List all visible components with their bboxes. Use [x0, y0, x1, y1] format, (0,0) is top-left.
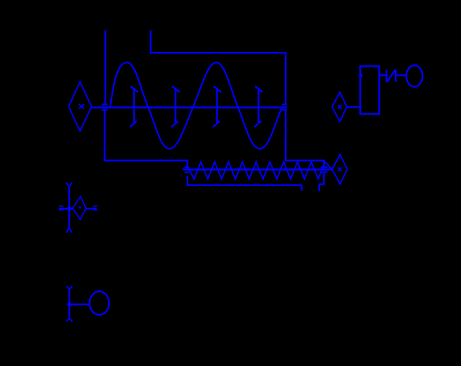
screw conveyor SC1 shaft: [92, 106, 287, 108]
screw SC1 flight paddle at x=175.5: [171, 86, 179, 127]
V1 bottom fork: [66, 228, 72, 233]
stream connector S2 diamond (gearbox input): [332, 92, 347, 121]
blower P1 stem vertical: [68, 289, 70, 319]
gearbox G1 body: [360, 66, 379, 114]
S2 cross mark: [338, 105, 342, 109]
wire: P1 stem to impeller circle: [69, 303, 89, 305]
V1 top fork: [66, 182, 72, 187]
P1 top fork: [66, 286, 72, 289]
screw SC1 flight paddle at x=217.0: [213, 86, 221, 127]
P1 circle top notch: [99, 290, 102, 292]
wire: gearbox output shaft: [379, 74, 386, 76]
wire: coupling to motor M1: [396, 74, 407, 76]
SC1 right end plate bars: [282, 104, 287, 109]
SC1 left end plate bars: [102, 104, 108, 109]
wire: feed stream 1 vertical into SC1 left end: [104, 30, 106, 104]
V1 right end bars: [93, 206, 97, 210]
stream connector S1 diamond (SC1 inlet): [69, 82, 92, 132]
gearbox G1 inner shaft dash: [361, 74, 363, 77]
wire: SC1 left outlet down and right to SC2 left end: [105, 111, 188, 167]
S3 cross mark: [338, 167, 342, 171]
screw SC1 flight paddle at x=134.0: [130, 86, 138, 127]
V1 hub dot: [67, 207, 71, 211]
screw SC1 flight paddle at x=258.5: [254, 86, 262, 127]
wire: S2 to gearbox G1: [347, 106, 360, 108]
wire: SC2 left underflow bracket: [187, 176, 301, 191]
motor M1 ellipse: [406, 65, 422, 87]
rotary valve V1 stem vertical: [68, 187, 70, 229]
V1 diamond rotor: [73, 197, 86, 220]
SC2 left end plate bars: [185, 167, 189, 172]
wire: SC1 right outlet down and right to SC2 right end: [286, 111, 324, 166]
screw conveyor SC1 helix flight (sine): [110, 62, 282, 148]
stream connector S3 diamond (SC2 outlet): [332, 155, 347, 185]
V1 left end bars: [59, 206, 63, 210]
P1 impeller circle: [90, 291, 110, 314]
screw conveyor SC2 zigzag flight: [188, 162, 332, 179]
V1 rotor mark: [79, 207, 82, 209]
V1 horizontal axis: [59, 208, 73, 210]
P1 hub dot: [67, 302, 71, 306]
motor M1 top notch: [413, 65, 416, 67]
wire: feed stream 2 (top elbow into SC1 right end): [151, 30, 286, 104]
SC2 right end plate bars: [321, 167, 328, 172]
wire: SC2 right underflow jog: [319, 173, 324, 191]
S1 cross mark: [79, 104, 84, 109]
coupling CP1: [387, 69, 396, 82]
P1 bottom fork: [66, 318, 72, 321]
screw conveyor SC2 axis: [183, 169, 332, 171]
